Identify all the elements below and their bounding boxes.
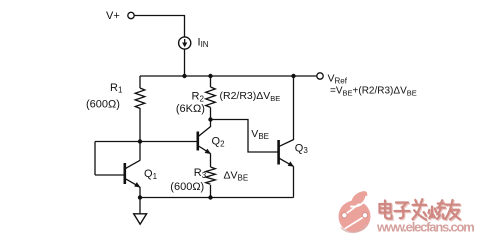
current source IIN [179,37,191,49]
svg-text:(600Ω): (600Ω) [170,181,204,193]
watermark text dianzifashaoyou (shadow) [381,200,461,221]
node B (R2/Q2 collector/VBE tap) [208,117,212,121]
watermark text dianzifashaoyou [380,199,460,220]
transistor Q1 [125,160,141,187]
wire R3 to bottom rail [210,185,212,198]
watermark logo [339,191,371,232]
wire rail to R2 [210,76,212,87]
resistor R2 [206,87,216,107]
wire rail corner to R1 [139,76,141,88]
transistor Q3 [279,140,294,167]
node Q3-rail junction [291,74,295,78]
svg-text:(600Ω): (600Ω) [86,99,120,111]
wire Q2 collector up [210,120,212,128]
svg-text:www.elecfans.com: www.elecfans.com [376,220,474,235]
wire current source to top rail [184,49,186,76]
wire Q1 collector up [139,142,141,161]
node R3 bottom junction [208,195,212,199]
node IIN-rail junction [182,74,186,78]
resistor R3 [206,167,216,184]
node A (R1/Q1 collector/Q2 base) [138,139,142,143]
wire Q2 emitter to R3 [210,154,212,168]
wire R2 to node B [210,108,212,120]
node R2-rail junction [208,74,212,78]
svg-text:V+: V+ [106,10,120,22]
wire bottom rail [140,197,294,199]
transistor Q2 [198,127,211,154]
wire Q3 emitter to bottom rail [293,166,295,197]
wire node B to Q3 base [211,120,279,153]
wire Q3 collector to rail [293,76,295,140]
terminal VRef [317,73,323,79]
resistor R1 [135,88,145,108]
wire top rail [140,75,317,77]
terminal V+ [128,12,134,18]
node Q1 emitter / ground [138,195,142,199]
wire ground stub [139,198,141,214]
wire feedback to Q1 base [95,174,125,176]
svg-text:(6KΩ): (6KΩ) [176,103,205,115]
wire node A to Q2 base [95,141,197,143]
wire V+ to current source [134,16,184,37]
wire R1 to node A [139,108,141,142]
wire feedback left vertical [94,142,96,176]
ground [134,214,147,224]
wire Q1 emitter down [139,187,141,198]
